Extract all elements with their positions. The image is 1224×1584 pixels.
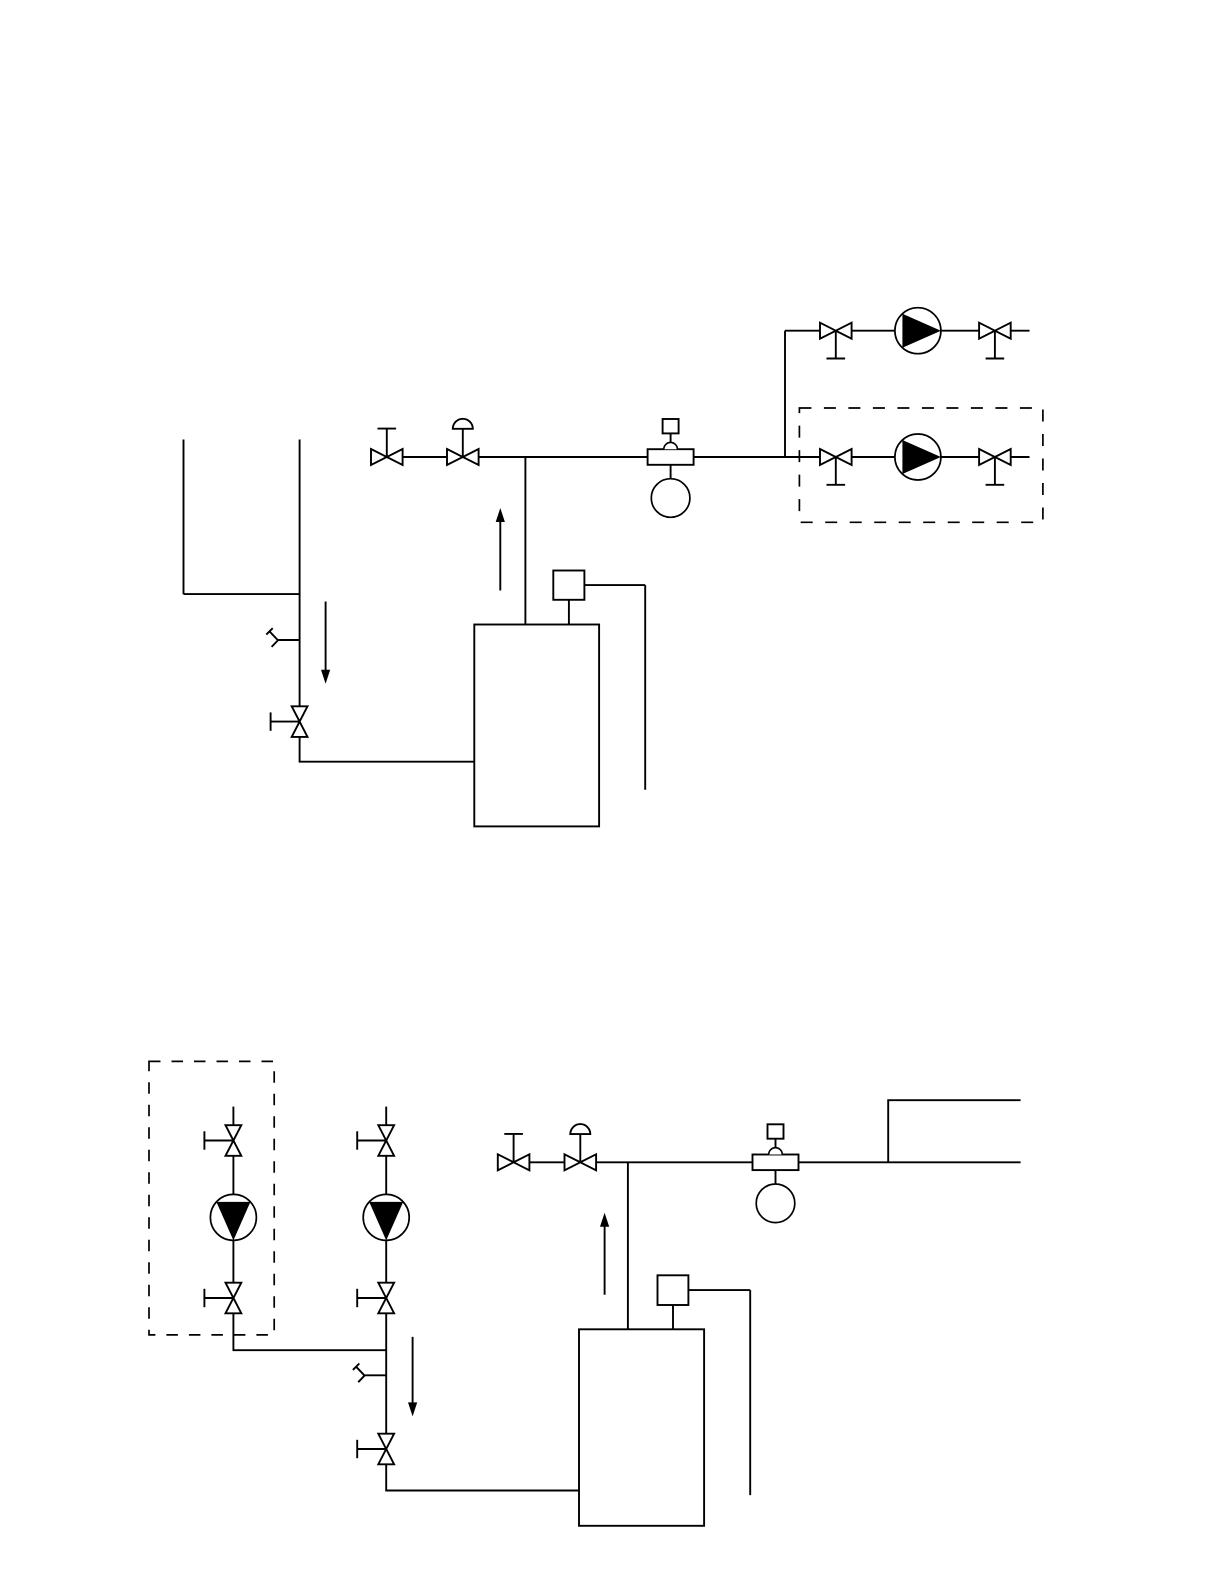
isolation valve (duty pump outlet) bbox=[979, 323, 1011, 359]
wire: return drop to shut-off valve bbox=[385, 1313, 387, 1433]
wire: pump to valve bbox=[385, 1240, 387, 1282]
wire: boiler supply riser bbox=[524, 457, 526, 625]
wire: second pump to valve bbox=[232, 1240, 234, 1282]
wire: valve to pump bbox=[385, 1156, 387, 1195]
wire: supply main between valves bbox=[529, 1161, 564, 1163]
dashed enclosure: optional second pump branch bbox=[149, 1061, 274, 1335]
dashed enclosure: optional standby pump group bbox=[799, 408, 1043, 522]
flow element with gauge (supply main) bbox=[648, 419, 694, 517]
wire: supply main to system (junction with bypass riser) bbox=[799, 1161, 1021, 1163]
wire: supply main to flow element (tee at boiler riser) bbox=[596, 1161, 752, 1163]
wire: duty pump line, riser to isolation valve bbox=[785, 330, 820, 332]
boiler bbox=[474, 625, 599, 827]
wire: supply main flow element to standby-pump branch bbox=[694, 456, 820, 458]
shut-off valve (supply, with T-handle) bbox=[371, 429, 403, 465]
wire: return drop below valve to boiler bbox=[299, 737, 475, 762]
pump P1 (duty circulation pump) bbox=[895, 308, 941, 354]
isolation valve (duty pump inlet) bbox=[820, 323, 852, 359]
boiler bbox=[579, 1329, 704, 1526]
wire: second branch drop and tie-in bbox=[233, 1313, 387, 1350]
wire: boiler supply riser bbox=[627, 1162, 629, 1329]
wire: second pump branch top stub bbox=[232, 1107, 234, 1126]
isolation valve (standby pump outlet) bbox=[979, 449, 1011, 485]
control box on boiler bbox=[658, 1275, 689, 1329]
isolation valve (second pump, top) bbox=[204, 1125, 241, 1156]
drain cock on return drop bbox=[266, 628, 299, 647]
wire: riser from supply main to duty pump line bbox=[784, 331, 786, 457]
wire: return drop below valve to boiler bbox=[385, 1464, 579, 1490]
flow arrow (down, return) bbox=[321, 602, 330, 684]
wire: valve to standby pump bbox=[852, 456, 895, 458]
drain cock on return drop bbox=[353, 1364, 386, 1383]
shut-off valve (supply, with T-handle) bbox=[498, 1134, 530, 1170]
flow arrow (down, return) bbox=[408, 1337, 417, 1417]
wire: sensor/capillary line from control box bbox=[584, 585, 645, 790]
isolation valve (standby pump inlet) bbox=[820, 449, 852, 485]
pump P4 (optional second pump) bbox=[210, 1194, 256, 1240]
wire: sensor/capillary line from control box bbox=[688, 1290, 750, 1495]
control box on boiler bbox=[553, 571, 584, 625]
shut-off valve (return, vertical) bbox=[271, 706, 308, 737]
wire: duty pump line outlet stub bbox=[1011, 330, 1030, 332]
shut-off valve (return, vertical) bbox=[357, 1434, 394, 1465]
flow arrow (up, supply) bbox=[496, 508, 505, 591]
wire: pump branch top stub bbox=[385, 1107, 387, 1126]
pump P2 (standby circulation pump) bbox=[895, 434, 941, 480]
wire: valve to second pump bbox=[232, 1156, 234, 1195]
wire: return drop from tank bbox=[299, 440, 301, 707]
isolation valve (pump branch, top) bbox=[357, 1125, 394, 1156]
isolation valve (second pump, bottom) bbox=[204, 1283, 241, 1314]
wire: bypass riser and upper header bbox=[887, 1100, 1020, 1162]
wire: supply main valve to flow element (tee at boiler riser) bbox=[479, 456, 648, 458]
expansion tank (open top) bbox=[184, 440, 300, 595]
isolation valve (pump branch, bottom) bbox=[357, 1283, 394, 1314]
safety/vent valve with dome cap bbox=[447, 419, 479, 465]
wire: pump to valve bbox=[941, 330, 979, 332]
flow arrow (up, supply) bbox=[600, 1213, 609, 1295]
wire: standby pump to valve bbox=[941, 456, 979, 458]
safety/vent valve with dome cap bbox=[565, 1124, 597, 1170]
flow element with gauge (supply main) bbox=[753, 1124, 799, 1222]
pump P3 (return circulation pump) bbox=[363, 1194, 409, 1240]
wire: valve to pump bbox=[852, 330, 895, 332]
wire: supply main between valves bbox=[403, 456, 447, 458]
wire: standby pump outlet stub bbox=[1011, 456, 1030, 458]
